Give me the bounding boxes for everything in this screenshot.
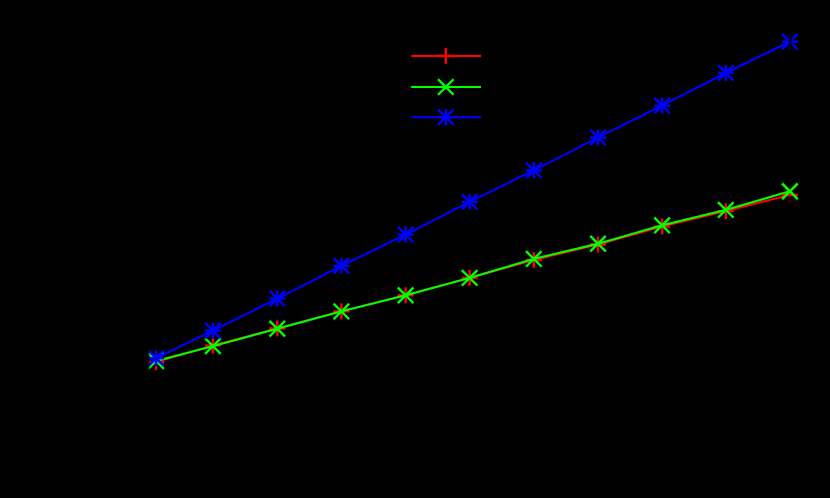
left plot border overdraw — [145, 0, 149, 498]
blue series markers (asterisk) — [148, 34, 798, 367]
red series markers (plus) — [148, 187, 798, 370]
green pt11 cross redraw — [782, 184, 798, 200]
green series line — [156, 191, 790, 361]
legend red sample — [411, 55, 481, 57]
legend green sample — [411, 86, 481, 88]
legend blue sample — [411, 116, 481, 118]
right plot border overdraw — [789, 0, 793, 498]
red pt11 horizontal bar redraw — [782, 194, 797, 196]
green series markers (cross) — [148, 184, 797, 369]
blue series line — [156, 42, 790, 359]
red series line — [156, 195, 790, 362]
